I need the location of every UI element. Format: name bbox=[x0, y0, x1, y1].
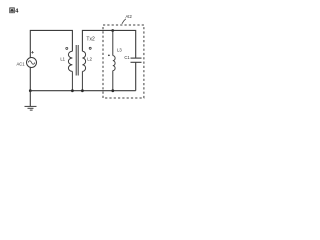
phasing dot of L3 bbox=[108, 54, 110, 56]
wire down to ground bbox=[29, 91, 31, 107]
ground bbox=[25, 106, 37, 110]
phasing dot of L2 bbox=[89, 47, 91, 49]
wire top rail right (secondary side) bbox=[82, 30, 135, 58]
leader arrow bbox=[122, 19, 126, 24]
capacitor C1 bbox=[131, 58, 142, 91]
plus sign bbox=[31, 51, 34, 54]
figure label 図4 bbox=[10, 8, 15, 13]
wire top rail left (primary loop) bbox=[30, 30, 72, 57]
svg-text:L1: L1 bbox=[60, 57, 65, 62]
svg-text:Tx2: Tx2 bbox=[86, 36, 95, 42]
svg-text:At2: At2 bbox=[126, 14, 133, 19]
svg-text:C1: C1 bbox=[124, 55, 130, 60]
svg-text:AC1: AC1 bbox=[16, 62, 25, 67]
inductor L1 (primary winding) bbox=[68, 51, 72, 90]
inductor L2 (secondary winding) bbox=[82, 51, 85, 90]
node junction L2 bottom bbox=[81, 89, 84, 92]
node junction at AC1 bottom bbox=[29, 89, 32, 92]
svg-text:L3: L3 bbox=[117, 48, 122, 53]
node junction top of L3 bbox=[111, 29, 114, 32]
AC source AC1 bbox=[27, 58, 37, 68]
node junction L1 bottom bbox=[71, 89, 74, 92]
svg-text:L2: L2 bbox=[87, 57, 92, 62]
node junction bottom of L3 bbox=[111, 89, 114, 92]
inductor L3 bbox=[113, 30, 115, 90]
dashed box At2 bbox=[103, 25, 144, 98]
wire AC1 bottom to ground node bbox=[29, 68, 31, 91]
transformer core bbox=[76, 45, 78, 76]
phasing dot of L1 bbox=[66, 47, 68, 49]
background bbox=[0, 0, 160, 120]
bottom rail wire bbox=[30, 90, 135, 92]
